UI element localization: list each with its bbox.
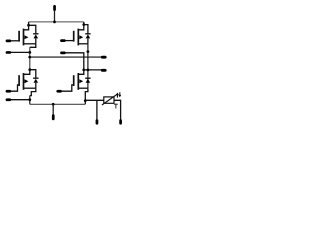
thermistor RT1 body [104,97,114,103]
diode D1 body diode of Q1 [33,34,38,44]
wire long output run to right pin [30,56,101,58]
terminal pin P5 Q2 gate [60,39,66,42]
terminal pin P11 bottom [52,114,55,120]
transistor Q1 channel bar [23,29,25,46]
terminal pin P4 right end of long wire [101,56,107,59]
wire Q2 gate lead [66,40,75,42]
wire thermistor right lead [114,100,121,120]
node dot Q3 drain [28,68,31,71]
wire bottom stub [52,104,54,114]
wire Q2 drain riser [78,25,84,30]
terminal pin P2 Q1 gate [6,40,12,43]
wire Q4 gate lead [62,85,74,91]
terminal pin P1 top supply [53,5,56,11]
diode D3 body diode of Q3 [33,78,38,88]
transistor Q4 gate bar [73,75,75,86]
node dot Q4 drain [82,69,85,72]
diode D4 body diode of Q4 [85,78,90,83]
wire Q4 drain riser [78,70,84,74]
wire Q3 drain jog to diode [30,70,36,79]
wire Q1 bottom lead [24,43,36,45]
wire Q1 drain jog to diode [29,25,36,34]
wire Q1 drain riser [24,25,29,30]
wire top supply stub [54,11,56,22]
wire top rail V+ [29,21,84,23]
wire bottom rail ground [30,103,86,105]
wire Q2 drain jog to diode [84,25,88,34]
terminal pin P9 left bottom [6,98,12,101]
wire mid pin to Q4 drain drop [66,53,84,70]
node dot left node to pin3 [28,51,31,54]
wire pin9 to bottom node [11,99,30,101]
wire Q3 bottom lead [24,87,36,89]
wire right output node vertical [87,44,89,88]
terminal pin P8 Q3 gate [6,90,12,93]
label T [114,104,118,109]
wire Q4 drain cross link [84,69,101,71]
transistor Q3 channel bar [23,73,25,90]
transistor Q2 gate bar [73,31,75,42]
wire Q1 source jog [30,44,36,48]
transistor Q4 channel bar [77,73,79,90]
terminal pin P6 mid connector [60,52,66,55]
node dot Q2 drain [82,23,85,26]
node dot thermistor tap [84,99,87,102]
transistor Q3 gate bar [18,75,20,86]
wire Q3 source jog [30,88,36,95]
wire left output node vertical [29,47,31,69]
node dot left node to long wire [28,56,31,59]
thermistor RT1 diagonal [102,95,117,106]
wire right rail corner down [83,22,85,25]
wire Q3 gate lead [11,85,20,91]
transistor Q3 body arrow [25,79,29,83]
wire thermistor left lead [85,99,104,101]
node dot bottom stub junction [52,103,55,106]
wire left sense drop [96,100,98,120]
terminal pin P12 sense left [96,119,99,124]
wire Q3 drain riser [24,70,30,75]
transistor Q1 body arrow [25,35,29,39]
node dot left bottom node [28,98,31,101]
thermistor arrows up down [116,92,121,97]
transistor Q2 channel bar [77,29,79,46]
node dot top stub junction [53,21,56,24]
wire left rail corner down [28,22,30,25]
transistor Q4 body arrow [79,79,83,83]
terminal pin P10 Q4 gate [56,90,62,93]
wire pin3 to left node [11,51,30,53]
wire Q1 gate lead [11,40,20,42]
transistor Q1 gate bar [18,31,20,42]
node dot right node cross [87,69,90,72]
terminal pin P3 left node [6,51,12,54]
node dot Q1 drain [27,24,30,27]
wire Q4 bottom lead [78,87,88,89]
terminal pin P13 sense right [119,119,122,124]
transistor Q2 body arrow [79,35,83,39]
node dot right node floating [87,50,90,53]
wire Q2 bottom lead [78,43,88,45]
terminal pin P7 right node [101,69,107,72]
wire Q3 source to rail [29,96,31,105]
diode D2 body diode of Q2 [85,34,90,44]
